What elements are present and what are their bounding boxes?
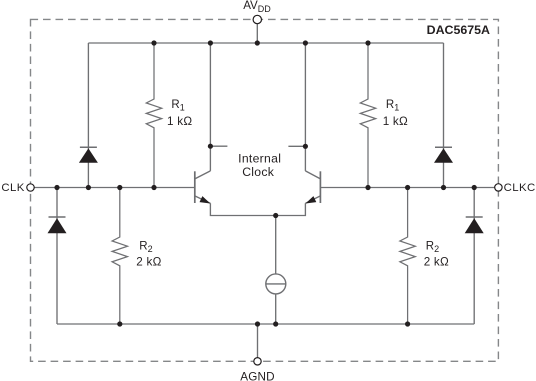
- port CLKC: [495, 184, 502, 191]
- wire upper-right clamp branch: [443, 43, 445, 188]
- junction bottom bus at R2 right: [405, 321, 410, 326]
- junction CLK at R2 left: [117, 185, 122, 190]
- transistor Q2: [305, 171, 320, 204]
- diode D2 AGND-to-CLK clamp: [48, 217, 67, 233]
- junction emitter node: [273, 213, 278, 218]
- port CLK: [27, 184, 34, 191]
- wire CLK base line: [34, 187, 195, 189]
- junction top bus at AVDD: [255, 40, 260, 45]
- diode D4 AGND-to-CLKC clamp: [465, 217, 484, 233]
- wire internal clock tap right: [288, 145, 305, 147]
- svg-text:CLK: CLK: [1, 182, 24, 194]
- wire upper-left clamp branch: [87, 43, 89, 188]
- junction top bus at R1 right: [365, 40, 370, 45]
- svg-text:2 kΩ: 2 kΩ: [424, 256, 449, 269]
- junction bottom bus at R2 left: [117, 321, 122, 326]
- svg-text:Clock: Clock: [242, 165, 275, 179]
- svg-text:1 kΩ: 1 kΩ: [383, 115, 408, 128]
- junction CLKC at R1 right: [365, 185, 370, 190]
- wire AGND lead: [257, 324, 259, 358]
- junction internal clock tap left: [208, 144, 213, 149]
- wire Q1 emitter: [210, 203, 275, 215]
- junction bottom bus at AGND: [255, 321, 260, 326]
- svg-text:DAC5675A: DAC5675A: [427, 23, 490, 37]
- junction top bus at Q1 collector: [208, 40, 213, 45]
- svg-text:AGND: AGND: [240, 371, 275, 381]
- junction CLKC at lower diode: [472, 185, 477, 190]
- junction top bus at Q2 collector: [303, 40, 308, 45]
- resistor R2 left: [112, 188, 127, 325]
- wire Q2 emitter: [276, 203, 306, 215]
- wire top bus: [88, 42, 443, 44]
- wire bottom bus: [57, 323, 474, 325]
- svg-text:CLKC: CLKC: [504, 182, 536, 194]
- junction CLK at lower diode: [54, 185, 59, 190]
- current source I1: [266, 274, 286, 294]
- diode D1 CLK-to-AVDD clamp: [79, 147, 98, 163]
- junction CLK at R1 left: [151, 185, 156, 190]
- wire current source to ground bus: [275, 294, 277, 324]
- junction CLKC at upper diode: [441, 185, 446, 190]
- junction CLK at upper diode: [86, 185, 91, 190]
- label Internal Clock: [238, 151, 281, 179]
- svg-text:Internal: Internal: [238, 151, 281, 165]
- wire AVDD lead: [256, 23, 258, 43]
- svg-text:2 kΩ: 2 kΩ: [136, 256, 161, 269]
- resistor R1 left: [146, 43, 161, 188]
- junction internal clock tap right: [303, 144, 308, 149]
- wire Q2 collector: [304, 43, 306, 171]
- wire lower-right clamp branch: [473, 188, 475, 325]
- resistor R2 right: [400, 188, 415, 325]
- diode D3 CLKC-to-AVDD clamp: [434, 147, 453, 163]
- wire Q1 collector: [209, 43, 211, 171]
- junction top bus at R1 left: [151, 40, 156, 45]
- wire lower-left clamp branch: [56, 188, 58, 325]
- ground terminal AGND: [254, 358, 261, 365]
- transistor Q1: [195, 171, 211, 204]
- resistor R1 right: [360, 43, 375, 188]
- wire tail to current source: [275, 216, 277, 274]
- power terminal AVDD: [253, 15, 261, 23]
- package boundary (dashed): [31, 19, 499, 361]
- svg-text:1 kΩ: 1 kΩ: [167, 115, 192, 128]
- junction bottom bus at current source: [273, 321, 278, 326]
- wire CLKC base line: [320, 187, 494, 189]
- junction CLKC at R2 right: [405, 185, 410, 190]
- wire internal clock tap left: [210, 145, 227, 147]
